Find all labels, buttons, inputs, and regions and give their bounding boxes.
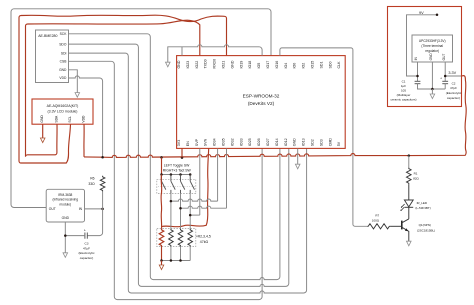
wire: LCD SCL loop to ESP32 IO21 (outer red) — [19, 15, 227, 163]
label: 3.3V — [448, 71, 456, 75]
svg-text:IO4: IO4 — [284, 63, 288, 69]
svg-text:C1: C1 — [402, 79, 406, 83]
sensor module AE-BME280 — [36, 30, 69, 83]
label: R6 33 ohm — [88, 176, 95, 185]
svg-text:SVP: SVP — [195, 138, 199, 146]
svg-text:R1: R1 — [414, 171, 418, 175]
junction: switch top rail col 3 — [179, 173, 182, 176]
MCU module U1 ESP-WROOM-32 (DevKits V2) — [177, 56, 346, 149]
svg-text:VDD: VDD — [81, 115, 85, 123]
svg-text:IO12: IO12 — [284, 138, 288, 146]
ground symbol (regulator) — [430, 94, 435, 99]
svg-text:SD3: SD3 — [319, 139, 323, 146]
wire: IRM IN to R6 net — [85, 208, 103, 210]
svg-text:IO25: IO25 — [248, 138, 252, 146]
svg-text:3.3V: 3.3V — [448, 71, 456, 75]
ground symbol (BME280) — [75, 93, 80, 98]
switch group dashed box — [157, 179, 196, 193]
label: C1 value — [390, 79, 416, 101]
svg-text:IO34: IO34 — [213, 138, 217, 146]
wire: regulator OUT to 3.3V net — [445, 75, 462, 77]
wire: regulator GND stub — [431, 62, 433, 89]
wire: R3 bottom stub — [170, 246, 172, 260]
svg-text:CMD: CMD — [328, 138, 332, 147]
wire: 9V feed to regulator IN — [407, 15, 438, 76]
resistor group dashed box — [157, 229, 196, 247]
svg-text:(infrared receiving: (infrared receiving — [53, 198, 79, 202]
svg-text:(L-53F3BT): (L-53F3BT) — [415, 206, 430, 210]
junction: SW3 bottom / H2 — [179, 207, 182, 210]
junction: GND rail — [431, 88, 434, 91]
svg-text:GND: GND — [40, 115, 44, 123]
label: R1 82 ohm — [413, 171, 419, 180]
svg-text:LEFT Toggle SW: LEFT Toggle SW — [164, 164, 190, 168]
regulator U2 UPC2933HF — [412, 35, 453, 62]
wire: R1 to IR LED anode — [408, 184, 410, 200]
resistor R5 47k — [188, 229, 193, 247]
svg-text:IO18: IO18 — [248, 61, 252, 69]
wire: switch top rail (3.3V) — [162, 174, 191, 176]
svg-text:IO5: IO5 — [257, 63, 261, 69]
wire: ESP32 IO16 to R7 (around right side) — [280, 48, 367, 226]
wire: SW2 column down to R3 — [170, 193, 172, 228]
wire: resistor rail to ground (red) — [161, 261, 163, 266]
svg-text:TXD0: TXD0 — [204, 59, 208, 68]
svg-text:IO15: IO15 — [311, 61, 315, 69]
svg-text:IO26: IO26 — [257, 138, 261, 146]
junction: switch top rail col 2 — [170, 173, 173, 176]
wire: R2 bottom stub (red) — [161, 246, 163, 260]
junction: rail / R6-BME VDD — [101, 156, 104, 159]
svg-text:IO21: IO21 — [222, 61, 226, 69]
svg-text:R2,3,4,5: R2,3,4,5 — [198, 234, 211, 238]
svg-text:RXD0: RXD0 — [213, 59, 217, 69]
svg-text:SD2: SD2 — [311, 139, 315, 146]
wire: ESP32 IO35 down to switch row (H2) — [226, 148, 228, 208]
wire: resistor bottom ground rail — [162, 260, 191, 262]
junction: switch top rail col 1 — [160, 173, 163, 176]
svg-text:GND: GND — [62, 216, 70, 220]
svg-text:(Electrolytic: (Electrolytic — [79, 251, 95, 255]
ground symbol (ESP32 bottom GND) — [295, 164, 300, 169]
junction: IRM GND / C3 — [64, 234, 67, 237]
label: LEFT Toggle SW / RIGHT x3 Tact SW — [163, 164, 192, 173]
svg-text:IO22: IO22 — [195, 61, 199, 69]
junction: OUT / C2 / 3.3V — [444, 75, 447, 78]
svg-text:IO23: IO23 — [186, 61, 190, 69]
svg-text:C2: C2 — [452, 81, 456, 85]
wire: ESP32 top GND / IO5 with hops over red wires — [168, 45, 262, 62]
junction: SW4 bottom / H3 — [189, 214, 192, 217]
transistor Q1 NPN 2SC1815BL — [402, 219, 409, 241]
wire: 3.3V feed down to switch rail (red) — [161, 157, 163, 174]
junction: gnd rail / R3 — [170, 259, 173, 262]
svg-text:(Electrolytic: (Electrolytic — [446, 91, 462, 95]
resistor R7 100 ohm — [367, 224, 390, 229]
label/net: 9V — [419, 11, 424, 15]
switch SW2 (tact) — [171, 175, 175, 194]
wire: ESP32 SVP down to switch row (H3) — [199, 148, 201, 215]
ground symbol (Q1 emitter) — [407, 241, 412, 246]
svg-text:capacitor): capacitor) — [80, 256, 94, 260]
wire: SW2 row H1 to ESP32 IO34 — [171, 199, 218, 201]
label: C2 value — [446, 81, 462, 99]
ground symbol (switch resistors) — [159, 265, 164, 270]
wire: ESP32 IO34 down to switch row (H1) — [217, 148, 219, 201]
svg-text:+: + — [84, 229, 86, 233]
wire: SW4 row H3 to ESP32 SVP — [190, 214, 200, 216]
svg-text:(Three terminal: (Three terminal — [421, 44, 443, 48]
wire: ESP32 GND pin stub to ground — [297, 148, 299, 164]
wire: GND to arrow — [431, 89, 433, 94]
svg-text:SCL: SCL — [68, 116, 72, 123]
svg-text:RIGHT×3 Tact SW: RIGHT×3 Tact SW — [163, 168, 192, 172]
capacitor C3 47uF electrolytic — [84, 229, 87, 239]
svg-text:SD1: SD1 — [319, 62, 323, 69]
svg-text:OUT: OUT — [442, 54, 446, 61]
svg-text:(Multilayer: (Multilayer — [397, 93, 411, 97]
svg-text:IO0: IO0 — [293, 63, 297, 69]
svg-text:IR_LED: IR_LED — [417, 201, 428, 205]
svg-text:AE-BME280: AE-BME280 — [38, 34, 57, 38]
svg-text:CSB: CSB — [60, 60, 68, 64]
svg-text:OUT: OUT — [49, 207, 56, 211]
wire: rail to R1 — [408, 156, 410, 168]
IR LED D1 L-53F3BT — [400, 200, 413, 211]
svg-text:IO35: IO35 — [222, 138, 226, 146]
wire: LCD SDA loop to ESP32 IO22 (inner red) — [26, 20, 200, 157]
svg-text:33Ω: 33Ω — [88, 182, 95, 186]
svg-text:ESP-WROOM-32: ESP-WROOM-32 — [243, 94, 280, 99]
wire: regulator OUT stub — [444, 62, 446, 81]
svg-text:SD0: SD0 — [328, 62, 332, 69]
resistor R3 47k — [169, 229, 174, 247]
svg-text:IO27: IO27 — [266, 138, 270, 146]
svg-text:CLK: CLK — [337, 61, 341, 69]
wire: BME280 SDO loop to ESP32 IO12 — [69, 44, 289, 286]
svg-text:regulator): regulator) — [425, 49, 439, 53]
svg-text:IO32: IO32 — [230, 138, 234, 146]
svg-text:47μF: 47μF — [83, 246, 90, 250]
junction: 9V terminal — [436, 14, 439, 16]
wire: ESP32 top pin1 GND stub — [181, 47, 183, 56]
label: R2,3,4,5 47kOhm — [196, 234, 211, 243]
ground symbol (LCD) — [40, 138, 45, 143]
svg-text:47μF: 47μF — [450, 86, 457, 90]
LCD module AE-AQM1602A(KIT) — [32, 99, 93, 124]
svg-text:3V3: 3V3 — [177, 140, 181, 146]
svg-text:GND: GND — [429, 53, 433, 61]
junction: gnd rail / R2 — [160, 259, 163, 262]
switch SW3 (tact) — [181, 175, 185, 194]
svg-text:C3: C3 — [85, 242, 89, 246]
wire: BME280 SCK loop to ESP32 IO14 — [69, 34, 280, 280]
wire: ESP32 SVN red wire to toggle column — [162, 148, 209, 226]
capacitor C2 47uF electrolytic — [440, 77, 448, 84]
wire: regulator IN stub — [417, 62, 419, 81]
svg-text:SVN: SVN — [204, 138, 208, 146]
label: Q1 (NPN) (2SC1815BL) — [417, 223, 435, 232]
wire: R4 bottom stub — [180, 246, 182, 260]
svg-text:IO13: IO13 — [302, 138, 306, 146]
svg-text:105: 105 — [401, 88, 406, 92]
resistor R6 33 ohm — [100, 176, 105, 192]
wire: SW1 column down to R2 (red) — [160, 175, 163, 229]
svg-text:100Ω: 100Ω — [372, 219, 380, 223]
svg-text:(2SC1815BL): (2SC1815BL) — [417, 228, 435, 232]
svg-text:VDD: VDD — [59, 76, 67, 80]
switch SW1 (toggle) — [162, 175, 166, 194]
power supply outer box — [388, 7, 462, 107]
resistor R1 82 ohm — [406, 168, 411, 185]
wire: BME280 SDI loop to ESP32 IO13 — [69, 53, 307, 293]
svg-text:IO33: IO33 — [239, 138, 243, 146]
ground symbol (IRM) — [63, 253, 68, 258]
junction: gnd rail / R4 — [179, 259, 182, 262]
svg-text:Q1(NPN): Q1(NPN) — [419, 223, 431, 227]
svg-text:GND: GND — [59, 68, 67, 72]
svg-text:(3.3V LCD module): (3.3V LCD module) — [48, 110, 78, 114]
svg-text:module): module) — [60, 202, 72, 206]
junction: SW2 bottom / H1 — [170, 200, 173, 203]
junction: switch top rail col 4 — [189, 173, 192, 176]
wire: BME280 VDD to 3.3V rail (hop over GND wire) — [69, 76, 103, 157]
svg-text:47kΩ: 47kΩ — [200, 240, 209, 244]
IR receiver module IRM-3638 — [46, 189, 84, 222]
svg-text:capacitor): capacitor) — [447, 96, 460, 100]
wire: C2 to ground rail — [444, 84, 446, 89]
svg-text:IO14: IO14 — [275, 138, 279, 146]
label: C3 47uF (Electrolytic capacitor) — [79, 242, 95, 260]
ground symbol (ESP32 top) — [166, 62, 171, 67]
wire: SW3 row H2 to ESP32 IO35 — [181, 206, 227, 208]
wire: SW3 column down to R4 — [180, 193, 182, 228]
wire: BME280 CSB loop to ESP32 IO26 — [69, 61, 263, 299]
svg-text:SCK: SCK — [60, 32, 68, 36]
svg-text:IO17: IO17 — [266, 61, 270, 69]
capacitor C1 1uF ceramic — [415, 81, 421, 83]
svg-text:82Ω: 82Ω — [413, 177, 419, 181]
wire: R6 bottom to C3 — [87, 192, 102, 236]
svg-text:SDI: SDI — [61, 51, 67, 55]
junction: R6 bottom / IRM IN — [101, 208, 104, 211]
junction: rail / ESP32 3V3 — [181, 156, 184, 159]
wire: LED cathode to Q1 collector — [408, 207, 410, 219]
resistor R4 47k — [178, 229, 183, 247]
svg-text:EN: EN — [186, 141, 190, 146]
svg-text:GND: GND — [230, 60, 234, 68]
resistor R2 47k (red) — [159, 229, 164, 247]
wire: C1 to ground rail — [418, 84, 446, 89]
svg-text:GND: GND — [177, 60, 181, 68]
svg-text:UPC2933HF(3.3V): UPC2933HF(3.3V) — [419, 39, 446, 43]
svg-text:SDA: SDA — [54, 115, 58, 123]
svg-text:R7: R7 — [375, 214, 379, 218]
svg-text:AE-AQM1602A(KIT): AE-AQM1602A(KIT) — [47, 104, 79, 108]
wire: LCD GND stub — [42, 124, 44, 138]
wire: 3.3V rail from regulator output across schematic — [84, 76, 466, 158]
wire: LCD VDD down to 3.3V rail — [83, 124, 85, 157]
svg-text:(DevKits V2): (DevKits V2) — [248, 101, 275, 106]
wire: IR receiver OUT to ESP32 IO17 (left/top loop) — [11, 9, 271, 208]
svg-text:R6: R6 — [90, 176, 94, 180]
svg-text:1μF: 1μF — [401, 84, 406, 88]
svg-text:+: + — [440, 77, 442, 81]
svg-text:IRM-3638: IRM-3638 — [58, 193, 72, 197]
junction: rail / R1 branch — [408, 154, 411, 157]
svg-text:ceramic capacitors): ceramic capacitors) — [390, 97, 416, 101]
switch SW4 (tact) — [190, 175, 194, 194]
label: IR_LED (L-53F3BT) — [415, 201, 430, 210]
junction: IN / C1 — [416, 75, 419, 78]
svg-text:5V: 5V — [337, 141, 341, 146]
junction: rail / switch feed — [160, 156, 163, 159]
wire: ESP32 3V3 stub to rail — [181, 148, 183, 157]
label: R7 100 ohm — [372, 214, 380, 223]
svg-text:IO16: IO16 — [275, 61, 279, 69]
wire: SW4 column down to R5 — [189, 193, 191, 228]
wire: IRM GND down / C3 left plate — [65, 222, 85, 253]
wire: R7 to Q1 base — [390, 225, 402, 227]
wire: R5 bottom stub — [189, 246, 191, 260]
svg-text:IO19: IO19 — [239, 61, 243, 69]
wire: BME280 GND to ground — [69, 70, 78, 93]
svg-text:SDO: SDO — [59, 42, 67, 46]
svg-text:GND: GND — [293, 138, 297, 146]
svg-text:IO2: IO2 — [302, 63, 306, 69]
